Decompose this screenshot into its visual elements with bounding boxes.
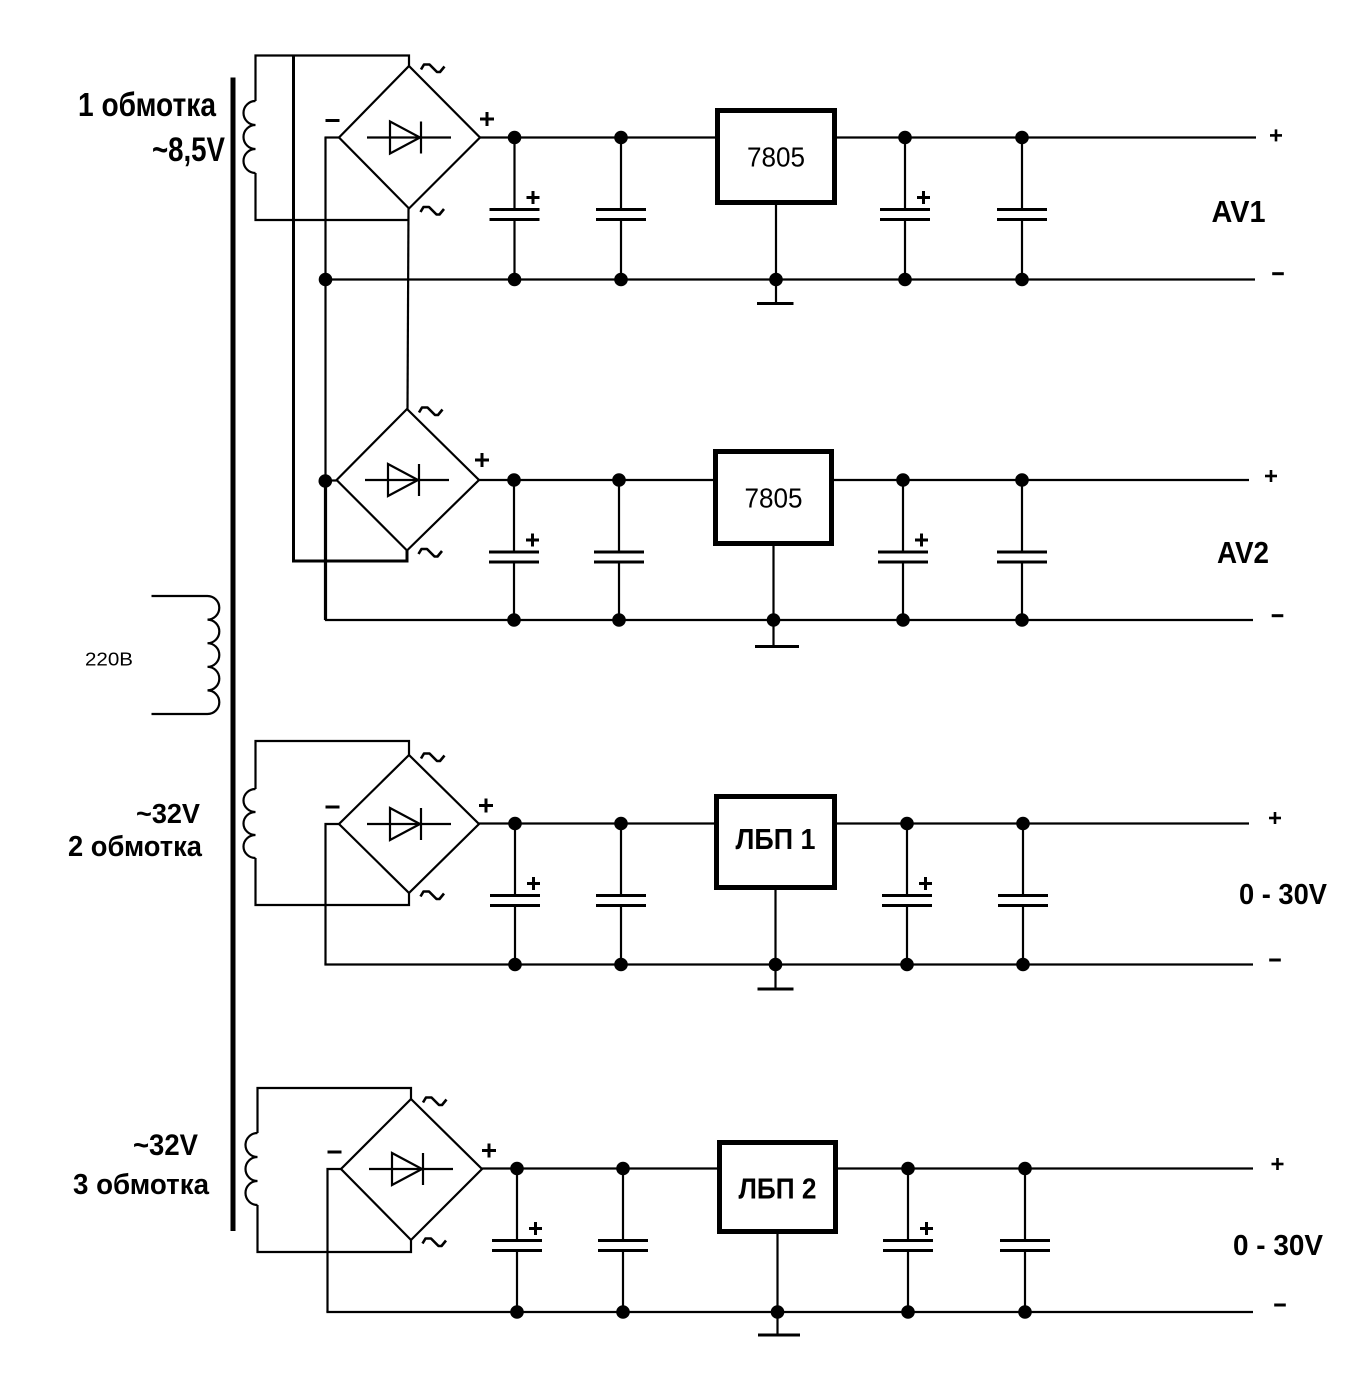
ground symbol G1 [757,280,794,304]
capacitor C7 (polar electrolytic), with junction dots [878,473,928,627]
label 220В [85,650,133,670]
label winding 3 voltage: "~32V" [133,1129,198,1162]
capacitor C2 (ceramic), with junction dots [596,131,646,287]
wire: BR1 minus to minus bus [325,136,339,138]
primary winding 220V (coil + leads) [152,596,220,714]
bridge rectifier BR1 [339,66,480,209]
junction dot: minus bus / BR2 minus [319,474,333,488]
ground symbol G3 [758,965,794,990]
minus bus (BR1−, BR2−, AV1−, AV2− vertical at x=326) [324,137,326,621]
BR3 plus output label [479,799,493,813]
wire: U1 ground pin [775,205,777,280]
label AV1 output − [1272,272,1284,275]
capacitor C6 (ceramic), with junction dots [594,473,644,627]
junction dot: U3 ground / minus rail [769,958,783,972]
capacitor C1 (polar electrolytic), with junction dots [490,131,540,287]
junction dot: U2 ground / AV2 minus rail [767,613,781,627]
BR2 plus output label [475,453,489,467]
svg-text:~32V: ~32V [133,1129,198,1162]
label AV1 output + [1270,129,1282,141]
svg-text:AV2: AV2 [1217,535,1269,570]
wire: U3 ground pin [774,890,776,965]
BR4 plus output label [482,1144,496,1158]
capacitor C8 (ceramic), with junction dots [997,473,1047,627]
BR2 AC mark (bottom) [419,549,443,557]
wire: BR3 minus to 0-30V(1) minus rail [326,824,340,965]
wire: U2 ground pin [772,546,774,620]
bridge rectifier BR2 [337,409,479,551]
AV1 plus rail: BR1 to U1 input [479,136,715,138]
label AV2 output + [1265,470,1277,482]
voltage regulator U3 "ЛБП 1" [717,797,835,888]
svg-text:7805: 7805 [747,142,805,173]
label winding 3: "3 обмотка" [73,1169,210,1201]
AV2 plus rail: U2 output to terminal [834,479,1249,481]
0-30V(2) plus rail: U4 output to terminal [838,1167,1253,1169]
junction dot: U4 ground / minus rail [771,1305,785,1319]
AV1 minus rail [325,278,1256,280]
AV2 plus rail: BR2 to U2 input [479,479,713,481]
capacitor C15 (polar electrolytic), with junction dots [883,1162,933,1319]
bridge rectifier BR3 [339,755,479,893]
capacitor C10 (ceramic), with junction dots [596,817,646,972]
svg-text:~8,5V: ~8,5V [152,131,225,169]
svg-text:AV1: AV1 [1212,194,1266,229]
label 0-30V(2) output − [1274,1304,1286,1307]
BR2 AC mark (top) [419,408,443,416]
label 0-30V(1) output + [1269,812,1281,824]
wire: BR1 AC bottom to BR2 AC top [408,209,409,410]
svg-text:3 обмотка: 3 обмотка [73,1169,210,1201]
wire: BR4 minus to 0-30V(2) minus rail [328,1169,342,1312]
label winding 2 voltage: "~32V" [136,798,200,829]
svg-text:1 обмотка: 1 обмотка [78,86,217,123]
label winding 2: "2 обмотка" [68,831,203,863]
BR1 minus output label [326,119,340,122]
ground symbol G4 [758,1312,800,1335]
capacitor C14 (ceramic), with junction dots [598,1162,648,1319]
svg-text:ЛБП 1: ЛБП 1 [736,824,816,856]
capacitor C3 (polar electrolytic), with junction dots [880,131,930,287]
BR4 minus output label [328,1151,342,1154]
svg-text:7805: 7805 [745,483,803,514]
label 0 - 30V (1) [1239,879,1328,911]
0-30V(1) plus rail: BR3 to U3 input [479,822,714,824]
secondary winding 3 (32V): coil and connection rectangle to BR4 [246,1088,412,1252]
capacitor C13 (polar electrolytic), with junction dots [492,1162,542,1319]
svg-text:~32V: ~32V [136,798,200,829]
BR3 minus output label [326,806,340,809]
capacitor C12 (ceramic), with junction dots [998,817,1048,972]
wire: winding1 top to BR2 AC bottom (vertical at x=293) [294,56,408,561]
label 0-30V(1) output − [1269,959,1281,962]
voltage regulator U2 "7805" [716,452,832,544]
capacitor C11 (polar electrolytic), with junction dots [882,817,932,972]
AV2 minus rail [325,619,1253,621]
BR1 AC mark (bottom) [421,207,445,215]
secondary winding 1 (8.5V): coil and connection rectangle to BR1 [244,56,409,221]
label 0 - 30V (2) [1233,1230,1324,1262]
BR1 AC mark (top) [421,65,445,73]
capacitor C5 (polar electrolytic), with junction dots [489,473,539,627]
BR3 AC mark (bottom) [421,892,445,900]
label winding 1: "1 обмотка" [78,86,217,123]
label AV2 output − [1272,614,1284,617]
label AV1 [1212,194,1266,229]
0-30V(1) minus rail [324,963,1253,965]
wire: U4 ground pin [776,1234,778,1312]
bridge rectifier BR4 [341,1099,482,1240]
AV1 plus rail: U1 output to terminal [837,136,1256,138]
label 0-30V(2) output + [1272,1158,1284,1170]
wire: BR2 minus stub to bus [326,479,337,481]
svg-text:220В: 220В [85,650,133,670]
capacitor C9 (polar electrolytic), with junction dots [490,817,540,972]
BR4 AC mark (bottom) [423,1239,447,1247]
voltage regulator U1 "7805" [718,111,835,203]
0-30V(2) plus rail: BR4 to U4 input [482,1167,717,1169]
label AV2 [1217,535,1269,570]
transformer core [231,78,236,1232]
junction dot: minus bus / AV1 minus rail [319,273,333,287]
capacitor C4 (ceramic), with junction dots [997,131,1047,287]
secondary winding 2 (32V): coil and connection rectangle to BR3 [244,741,409,905]
svg-text:ЛБП 2: ЛБП 2 [739,1174,817,1206]
BR1 plus output label [480,112,494,126]
0-30V(1) plus rail: U3 output to terminal [837,822,1249,824]
svg-text:0 - 30V: 0 - 30V [1233,1230,1324,1262]
ground symbol G2 [755,620,799,647]
svg-text:2 обмотка: 2 обмотка [68,831,203,863]
voltage regulator U4 "ЛБП 2" [720,1143,836,1232]
BR3 AC mark (top) [421,754,445,762]
0-30V(2) minus rail [326,1311,1253,1313]
svg-text:0 - 30V: 0 - 30V [1239,879,1328,911]
capacitor C16 (ceramic), with junction dots [1000,1162,1050,1319]
label winding 1 voltage: "~8,5V" [152,131,225,169]
junction dot: U1 ground / AV1 minus rail [769,273,783,287]
BR4 AC mark (top) [423,1098,447,1106]
